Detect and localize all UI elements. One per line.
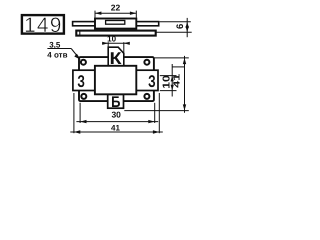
svg-text:6: 6 [175, 24, 186, 29]
svg-text:22: 22 [111, 2, 121, 12]
svg-text:149: 149 [24, 14, 63, 37]
svg-text:41: 41 [111, 124, 120, 133]
hole top-left [81, 60, 86, 65]
svg-text:3,5: 3,5 [49, 40, 61, 49]
leader 3,5 / 4 holes [47, 49, 79, 59]
side view: slot in boss [106, 21, 125, 25]
side view: thin middle plate (edge view) [73, 22, 159, 26]
front view: bottom tab Б box [108, 94, 124, 108]
front view: base column (plate) [79, 57, 154, 101]
front view: central boss [95, 66, 136, 95]
side view: base plate (edge view) [76, 31, 155, 36]
hole bottom-left [81, 94, 86, 99]
front view: middle bar (thin plate, in front of column) [73, 70, 158, 90]
dimension 10 (front view right) [160, 64, 185, 97]
dimension 41 (front view right) [124, 56, 189, 113]
svg-text:41: 41 [172, 74, 182, 88]
task number box 149 [22, 14, 64, 37]
svg-text:30: 30 [111, 110, 121, 120]
dimension 6 (side view right) [156, 18, 192, 37]
hole bottom-right [144, 94, 149, 99]
hole top-right [144, 60, 149, 65]
dimension 41 (front view bottom) [70, 93, 163, 133]
svg-text:Б: Б [111, 94, 120, 111]
side view: central boss (edge view) [95, 19, 136, 29]
svg-text:З: З [77, 72, 85, 91]
svg-text:10: 10 [107, 35, 116, 44]
side view: base plate inner end line [79, 31, 81, 36]
svg-text:З: З [148, 72, 156, 91]
svg-text:К: К [110, 49, 123, 68]
dimension 10 (front view top, over К) [102, 42, 127, 44]
dimension 30 (front view bottom) [76, 103, 158, 123]
front view: К box side extensions up to dimension line [107, 42, 109, 47]
dimension 22 (side view top) [95, 11, 136, 18]
front view: top tab К box with chamfer [108, 47, 124, 67]
svg-text:4 отв: 4 отв [47, 51, 67, 60]
